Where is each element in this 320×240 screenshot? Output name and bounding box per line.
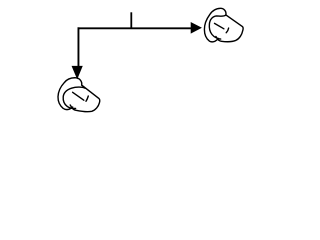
arrowhead right xyxy=(191,23,201,34)
clip head ellipse (left) xyxy=(63,87,85,108)
clip icon (left) xyxy=(58,78,100,112)
clip cone and lobe (left) xyxy=(70,85,99,111)
clip tick (left) xyxy=(86,96,88,101)
clip head ellipse xyxy=(209,15,226,39)
clip icon (right) xyxy=(204,8,243,42)
clip flange outline (left) xyxy=(58,78,82,110)
arrowhead down xyxy=(72,66,82,78)
wire tick xyxy=(130,12,132,28)
clip slot dash (left) xyxy=(73,92,84,100)
clip slot dash xyxy=(215,23,224,28)
wire vertical leader xyxy=(77,27,79,66)
clip tick xyxy=(226,28,228,33)
wire horizontal leader xyxy=(78,27,192,29)
clip cone and lobe xyxy=(216,15,243,42)
clip flange outline xyxy=(204,8,226,42)
